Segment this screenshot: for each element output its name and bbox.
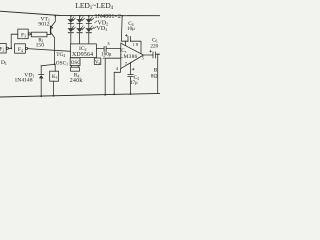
svg-text:Vin: Vin — [95, 60, 101, 65]
svg-text:1N4001×2: 1N4001×2 — [95, 13, 122, 20]
svg-text:LM386: LM386 — [120, 54, 138, 60]
svg-text:1: 1 — [133, 42, 135, 47]
svg-text:10μ: 10μ — [127, 27, 135, 32]
svg-text:240k: 240k — [70, 78, 83, 84]
svg-text:150: 150 — [36, 42, 45, 48]
svg-text:1N4148: 1N4148 — [15, 78, 33, 84]
svg-text:9012: 9012 — [38, 21, 49, 27]
svg-text:LED1~LED4: LED1~LED4 — [75, 1, 113, 11]
svg-text:8Ω: 8Ω — [151, 73, 158, 79]
svg-text:XD9564: XD9564 — [72, 52, 93, 58]
svg-text:220: 220 — [150, 44, 158, 50]
svg-text:47μ: 47μ — [130, 81, 138, 86]
svg-text:OSC: OSC — [71, 61, 81, 66]
